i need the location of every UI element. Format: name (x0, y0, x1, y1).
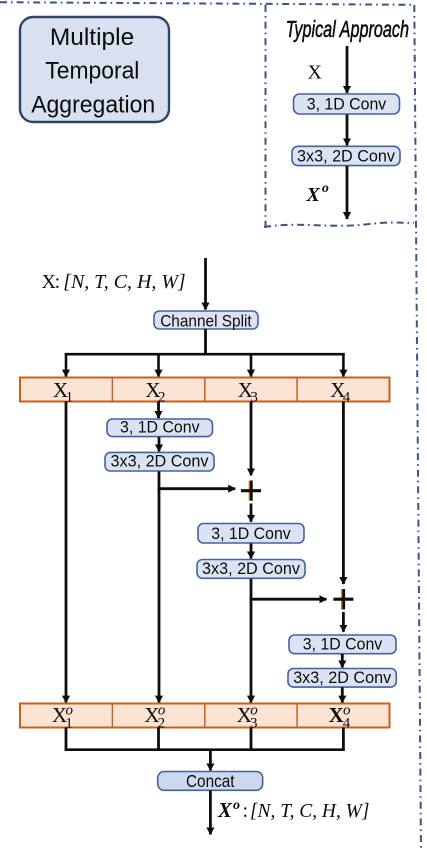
wire outer dash-dot border right (414, 5, 421, 851)
svg-text:o: o (233, 798, 240, 813)
wire collector drop X1o (65, 728, 68, 751)
wire arrow X into 1D conv (typical approach) (346, 46, 349, 93)
wire arrow between conv boxes (branch 2) (158, 437, 161, 451)
box 3x3, 2D Conv (branch 2) (105, 452, 214, 472)
node plus 1 (element-wise add) (241, 481, 261, 501)
svg-text:3x3, 2D Conv: 3x3, 2D Conv (293, 668, 391, 687)
wire X1 straight line to output bar (65, 402, 68, 703)
wire arrow between conv boxes (branch 3) (250, 544, 253, 559)
wire collector drop X2o (157, 728, 160, 751)
svg-text:[N, T, C, H, W]: [N, T, C, H, W] (250, 800, 369, 822)
box 3, 1D Conv (branch 3) (198, 524, 304, 544)
wire X4 arrow into plus 2 (342, 402, 345, 585)
svg-text:o: o (322, 181, 329, 196)
wire collector drop X4o (342, 728, 345, 751)
svg-text:[N, T, C, H, W]: [N, T, C, H, W] (63, 271, 186, 293)
box Concat (158, 771, 263, 791)
wire X2 arrow into 1D conv 1 (157, 402, 160, 419)
wire branch-2 lateral arrow into plus 1 (158, 487, 236, 490)
svg-text:Typical Approach: Typical Approach (286, 16, 409, 42)
wire distribution line (65, 353, 345, 356)
wire plus 2 down arrow into 1D conv 3 (342, 612, 345, 632)
box Channel Split (154, 311, 258, 330)
svg-text:3x3, 2D Conv: 3x3, 2D Conv (297, 147, 395, 166)
box 3x3, 2D Conv (branch 3) (197, 559, 305, 578)
wire X3 arrow into plus 1 (250, 402, 253, 476)
wire arrow between conv boxes (branch 4) (341, 654, 344, 668)
node plus 2 (element-wise add) (333, 589, 353, 609)
wire collector drop X3o (250, 728, 253, 751)
wire collector line (65, 748, 345, 751)
svg-text:3, 1D Conv: 3, 1D Conv (307, 95, 387, 114)
wire input arrow into Channel Split (204, 258, 207, 310)
box 3x3, 2D Conv (typical approach) (292, 146, 400, 165)
wire typical-approach panel bottom wavy dash-dot border (264, 223, 414, 228)
node Xo (typical approach output) (306, 181, 329, 206)
svg-text:Multiple: Multiple (50, 24, 134, 51)
svg-text:3, 1D Conv: 3, 1D Conv (211, 524, 291, 543)
wire final output arrow (209, 791, 212, 835)
wire drop arrow to X2 (157, 353, 160, 377)
wire branch-4 arrow into output bar (341, 687, 344, 702)
wire typical-approach panel left dash-dot border (265, 5, 267, 227)
svg-text:3, 1D Conv: 3, 1D Conv (120, 417, 200, 436)
svg-text:Aggregation: Aggregation (31, 92, 155, 119)
box split bar X1..X4 (20, 378, 390, 406)
svg-text:X: X (329, 703, 344, 727)
wire drop arrow to X4 (342, 353, 345, 377)
box 3, 1D Conv (branch 4) (289, 634, 396, 653)
wire branch-3 lateral arrow into plus 2 (250, 598, 327, 601)
box 3x3, 2D Conv (branch 4) (288, 668, 396, 687)
svg-text::: : (243, 800, 249, 822)
wire drop arrow to X3 (250, 353, 253, 377)
node X input label [N,T,C,H,W] (42, 271, 186, 293)
box output bar X1o..X4o (20, 702, 390, 731)
svg-text:Concat: Concat (186, 771, 235, 791)
svg-text:Temporal: Temporal (45, 58, 139, 85)
box Multiple Temporal Aggregation title (20, 17, 169, 122)
box 3, 1D Conv (branch 2) (107, 417, 213, 436)
svg-text::: : (55, 271, 61, 293)
box 3, 1D Conv (typical approach) (294, 94, 400, 114)
wire drop arrow to X1 (65, 353, 68, 377)
wire branch-2 output down to output bar (158, 472, 161, 703)
wire arrow 1D conv to 2D conv (typical approach) (346, 115, 349, 146)
svg-text:3x3, 2D Conv: 3x3, 2D Conv (111, 452, 209, 471)
node Xo output label [N,T,C,H,W] (217, 798, 369, 822)
wire plus 1 down arrow into 1D conv 2 (250, 504, 253, 522)
svg-text:Channel Split: Channel Split (160, 311, 252, 330)
wire channel split to distribution line (204, 329, 207, 355)
svg-text:X: X (217, 798, 233, 822)
svg-text:3x3, 2D Conv: 3x3, 2D Conv (202, 559, 300, 578)
wire output arrow (typical approach) (346, 166, 349, 219)
svg-text:X: X (308, 62, 323, 84)
wire outer dash-dot border top (0, 2, 414, 5)
wire arrow into Concat (209, 750, 212, 771)
svg-text:3, 1D Conv: 3, 1D Conv (303, 634, 383, 653)
wire branch-3 output down to output bar (250, 579, 253, 703)
svg-text:X: X (306, 184, 321, 206)
